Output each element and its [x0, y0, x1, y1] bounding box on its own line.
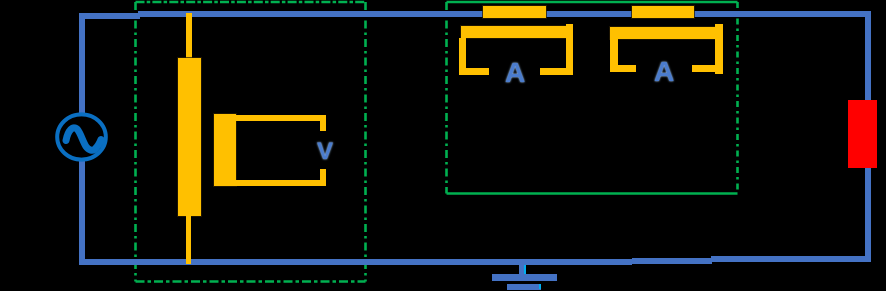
wire: bottom horizontal right segment [711, 256, 871, 262]
VT primary bottom lead [186, 216, 191, 264]
VT secondary bottom wire [230, 180, 326, 186]
wire: top horizontal main segment [138, 11, 871, 17]
wire: left vertical [79, 13, 85, 265]
wire: bottom horizontal middle segment [632, 258, 712, 264]
CT2 secondary bar [610, 27, 719, 39]
green dashed box: voltage transformer zone [136, 2, 366, 282]
CT1 primary bar [483, 6, 546, 18]
load resistor (red) [848, 100, 877, 168]
ground symbol bar 2 accent (light blue) [539, 284, 541, 289]
CT2 bracket right vertical [715, 24, 723, 74]
CT2 bracket left vertical [610, 39, 618, 72]
CT1 secondary bar [461, 26, 572, 38]
ammeter A1 label [505, 57, 525, 89]
VT primary winding bar [178, 58, 201, 216]
CT1 bracket right arm [540, 68, 573, 75]
ground symbol stem [519, 264, 526, 275]
VT secondary top terminal tick [320, 115, 326, 131]
ground symbol bar 2 [507, 284, 541, 290]
VT secondary top wire [230, 115, 326, 121]
CT2 bracket right arm [692, 65, 722, 72]
ammeter A2 label [654, 56, 674, 88]
voltmeter V label [317, 138, 333, 166]
ground symbol stem accent (light blue) [524, 265, 526, 275]
VT secondary winding bar [214, 114, 236, 186]
wire: bottom horizontal left segment [79, 259, 632, 265]
green dashed box: current transformer zone [447, 2, 738, 194]
CT1 bracket left vertical [459, 38, 466, 75]
wire: top horizontal left segment [79, 13, 140, 19]
wire: right vertical [865, 11, 871, 262]
CT2 primary bar [632, 6, 694, 18]
CT2 bracket left arm [610, 65, 636, 72]
ground symbol bar 1 [492, 274, 557, 281]
VT secondary bottom terminal tick [320, 169, 326, 186]
VT primary top lead [186, 13, 192, 59]
CT1 bracket left arm [459, 68, 489, 75]
CT1 bracket right vertical [566, 24, 573, 75]
AC source V1 [47, 102, 117, 172]
